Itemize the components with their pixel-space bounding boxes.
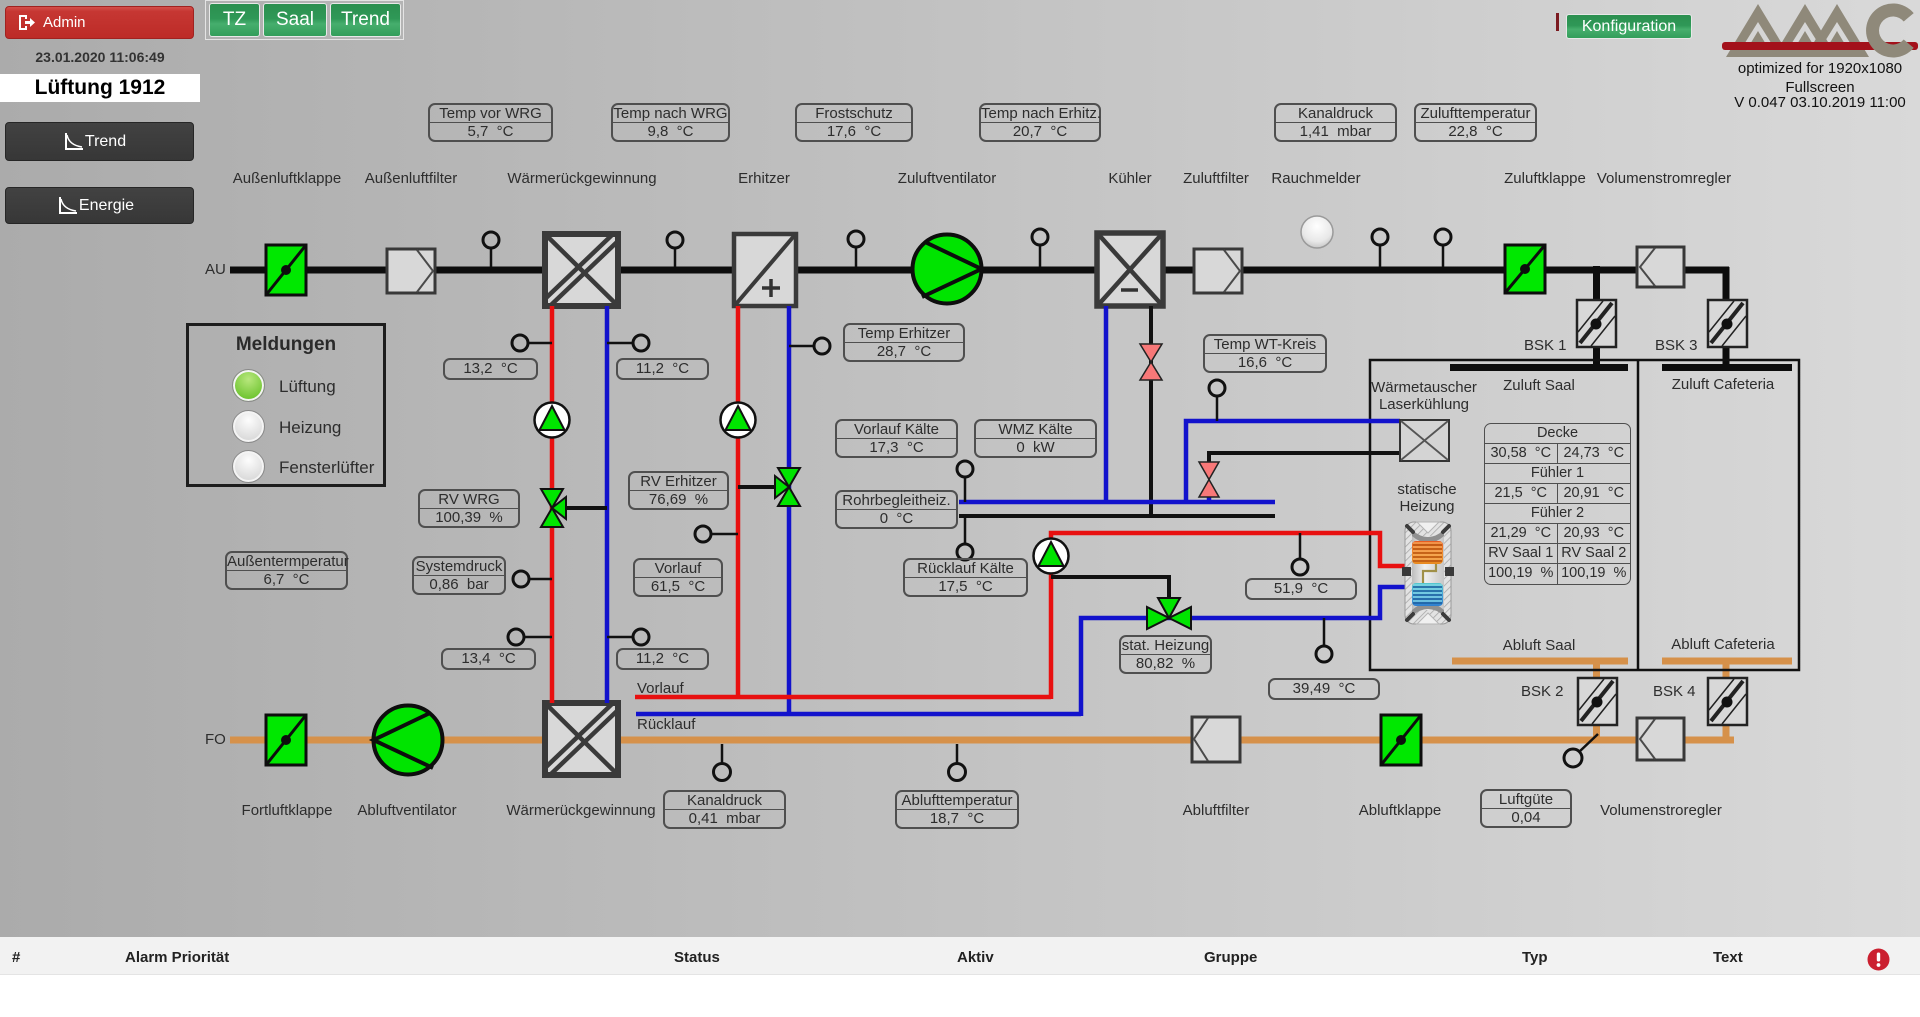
pipe black WRG 3-way link xyxy=(562,506,607,510)
wire AU supply duct xyxy=(230,267,1729,274)
pipe blue WMZ horizontal xyxy=(959,500,1275,505)
sensor Luftgüte slanted xyxy=(1564,734,1598,767)
node Zuluft Saal duct xyxy=(1450,364,1628,371)
sensor duct 9,8°C xyxy=(667,232,683,267)
sensor FO Ablufttemperatur xyxy=(949,744,966,781)
damper Fortluftklappe xyxy=(266,715,306,765)
wire BSK2 to FO duct xyxy=(1593,725,1600,740)
node FO label xyxy=(205,731,226,748)
pipe red Erhitzer vertical xyxy=(736,306,741,699)
smoke-detector Rauchmelder xyxy=(1301,216,1333,248)
heat-exchanger Wärmerückgewinnung (supply) xyxy=(545,234,618,306)
fan Zuluftventilator xyxy=(913,235,982,304)
sensor Vorlauf 61,5°C xyxy=(695,526,738,542)
pipe black Erhitzer 3-way link xyxy=(738,485,780,489)
damper Zuluftklappe xyxy=(1505,245,1545,293)
valve stat. Heizung 3-way xyxy=(1147,598,1191,629)
pipe blue WRG vertical xyxy=(605,306,610,703)
sensor duct Kanaldruck xyxy=(1372,229,1388,267)
sensor 13,2°C xyxy=(512,335,552,351)
component labels bottom xyxy=(242,802,333,819)
fan Abluftventilator xyxy=(374,706,443,775)
pipe blue WT riser xyxy=(1186,421,1400,504)
AMC logo xyxy=(1712,0,1920,110)
pipe red Vorlauf horizontal xyxy=(635,695,1051,700)
pump P1 WRG xyxy=(535,403,570,438)
bottom value boxes xyxy=(663,790,786,829)
sensor duct Zulufttemperatur xyxy=(1435,229,1451,267)
filter Zuluftfilter xyxy=(1194,249,1242,293)
sensor 11,2°C exhaust xyxy=(607,629,649,645)
filter Abluftfilter xyxy=(1192,717,1240,762)
pipe blue Erhitzer vertical xyxy=(787,306,792,716)
sensor 13,4°C xyxy=(508,629,552,645)
sensor Rohrbegleitheiz xyxy=(957,461,973,502)
Meldungen panel xyxy=(186,323,386,487)
wire duct branch to BSK1 xyxy=(1593,266,1600,302)
room box Saal/Cafeteria xyxy=(1370,360,1799,670)
room labels xyxy=(1503,377,1575,394)
cooler Kühler xyxy=(1097,233,1163,306)
pipe red pump riser xyxy=(1051,533,1406,699)
filter Außenluftfilter xyxy=(387,249,435,293)
sensor 39,49°C xyxy=(1316,618,1332,662)
pipe red WRG vertical xyxy=(550,306,555,703)
room divider xyxy=(1637,360,1640,670)
wire BSK1 to Zuluft Saal xyxy=(1593,345,1600,371)
wire Abluft Saal to BSK2 xyxy=(1593,661,1600,680)
heat-exchanger Wärmerückgewinnung (exhaust) xyxy=(545,703,618,775)
wire BSK3 to Zuluft Cafeteria xyxy=(1723,345,1730,371)
pipe blue Ruecklauf horizontal xyxy=(636,712,1081,717)
pipe blue boiler return xyxy=(1081,587,1406,716)
pipe black WT valve link xyxy=(1209,453,1400,465)
regulator Volumenstromregler (exhaust) xyxy=(1637,718,1684,760)
pipe black pump to valve link xyxy=(1051,577,1169,604)
valve Kühler 2-way xyxy=(1140,344,1162,380)
boiler statische Heizung xyxy=(1402,522,1454,624)
pipe blue valve stub xyxy=(1207,490,1212,502)
pump P2 Erhitzer xyxy=(721,403,756,438)
component labels top xyxy=(233,170,341,187)
sensor 51,9°C xyxy=(1292,533,1308,575)
pipe labels xyxy=(637,680,684,697)
sensor duct 5,7°C xyxy=(483,232,499,267)
top-left controls xyxy=(205,0,404,40)
value boxes top row xyxy=(428,103,553,142)
regulator Volumenstromregler (supply) xyxy=(1637,247,1684,287)
pipe blue Kühler vertical xyxy=(1104,306,1109,502)
sensor Rücklauf Kälte xyxy=(957,516,973,560)
wire FO exhaust duct xyxy=(230,737,1734,744)
sensor duct Temp nach Erhitz xyxy=(1032,229,1048,267)
wire duct corner to BSK3 xyxy=(1723,267,1730,302)
sensor FO Kanaldruck xyxy=(714,744,731,781)
sensor duct Frostschutz xyxy=(848,231,864,267)
pump P3 statische Heizung xyxy=(1034,539,1069,574)
node AU label xyxy=(205,261,226,278)
valve RV WRG 3-way xyxy=(541,489,566,527)
wire BSK4 to FO duct xyxy=(1723,725,1730,740)
room data table xyxy=(1484,423,1631,585)
fire-damper BSK3 xyxy=(1708,300,1747,347)
pipe black WMZ horizontal xyxy=(959,514,1275,518)
mid value boxes xyxy=(443,358,538,380)
damper Abluftklappe xyxy=(1381,715,1421,765)
pipe black Kühler vertical xyxy=(1149,306,1153,516)
sensor 11,2°C supply xyxy=(607,335,649,351)
sensor Systemdruck xyxy=(513,571,552,587)
node Abluft Saal duct xyxy=(1452,658,1628,665)
heater Erhitzer xyxy=(734,234,796,306)
fire-damper BSK2 xyxy=(1578,678,1617,725)
fire-damper BSK1 xyxy=(1577,300,1616,347)
sensor Temp WT-Kreis xyxy=(1209,380,1225,421)
heat-exchanger Laserkühlung xyxy=(1400,420,1449,461)
node Zuluft Cafeteria duct xyxy=(1662,364,1792,371)
node Abluft Cafeteria duct xyxy=(1662,658,1792,665)
valve WT-Kreis 2-way xyxy=(1199,462,1219,497)
alarm table xyxy=(0,937,1920,1017)
wire Abluft Cafeteria to BSK4 xyxy=(1723,661,1730,680)
valve RV Erhitzer 3-way xyxy=(775,468,800,506)
sensor Temp Erhitzer xyxy=(789,338,830,354)
fire-damper BSK4 xyxy=(1708,678,1747,725)
damper Außenluftklappe xyxy=(266,245,306,295)
